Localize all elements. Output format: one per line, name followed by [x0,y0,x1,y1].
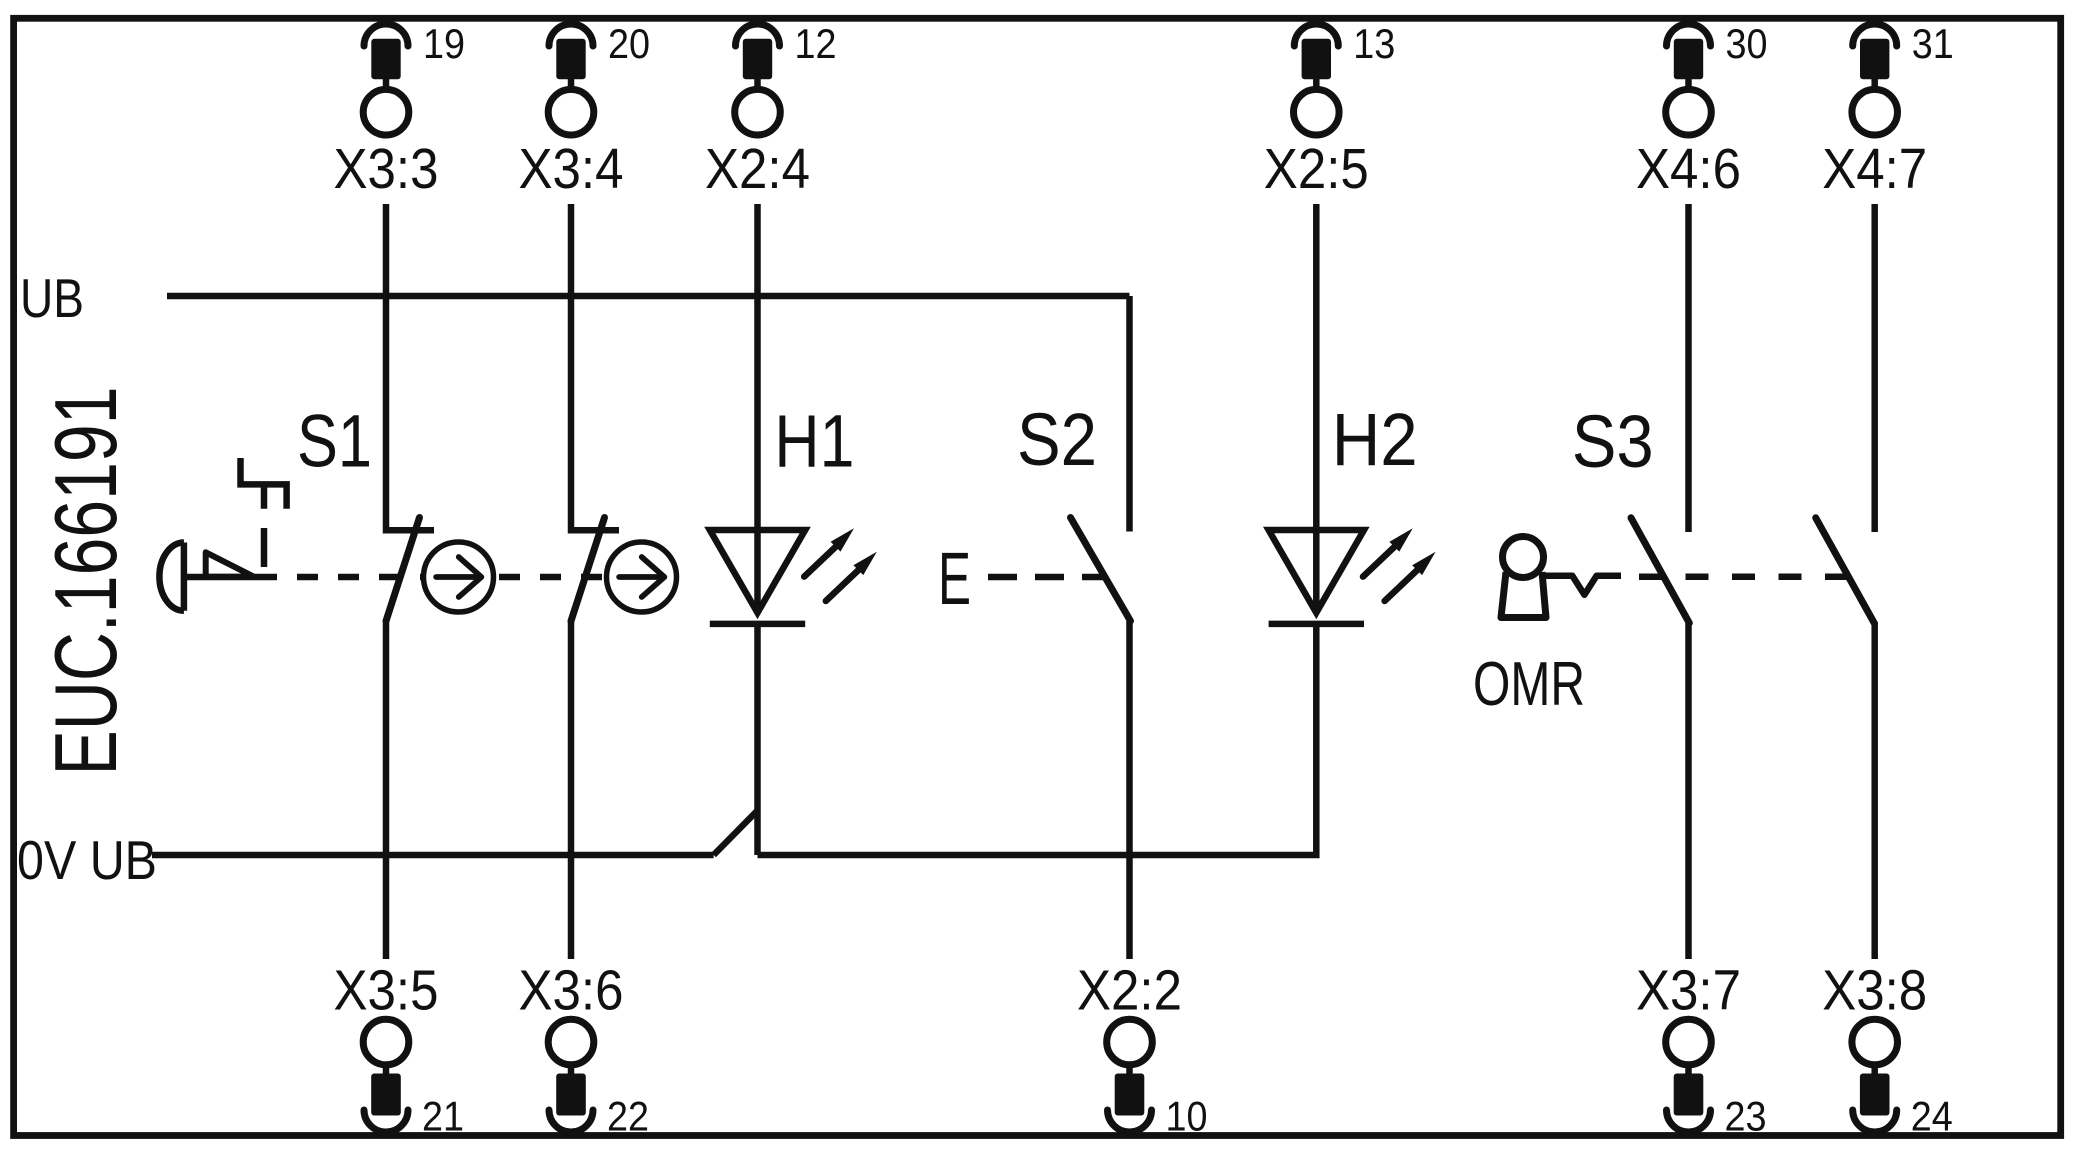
svg-text:30: 30 [1726,20,1768,67]
svg-text:22: 22 [607,1093,649,1140]
wire H1 cathode down to 0V UB [754,624,761,855]
mechanical link dashed S1 segment B [499,574,606,581]
svg-text:E: E [938,537,971,620]
mechanical link dashed S2 [988,574,1104,581]
contact S1.1 blade (NC) [386,518,420,622]
svg-text:X3:5: X3:5 [334,959,439,1023]
wire X3:4 down to contact S1.2 [571,204,619,530]
terminal X3:4 (top plug-socket), pin 20 [519,20,651,201]
svg-text:20: 20 [608,20,650,67]
svg-text:UB: UB [20,267,84,329]
svg-text:X3:7: X3:7 [1636,959,1741,1023]
wire 0V UB diagonal jog [714,811,758,856]
terminal X4:7 (top plug-socket), pin 31 [1822,20,1954,201]
wire contact S3.2 down to X3:8 [1871,622,1878,959]
svg-text:X3:8: X3:8 [1822,959,1927,1023]
svg-text:OMR: OMR [1473,650,1585,719]
wire contact S1.1 down to X3:5 [383,620,390,959]
terminal X2:4 (top plug-socket), pin 12 [705,20,837,201]
svg-text:H1: H1 [774,399,854,482]
svg-text:31: 31 [1912,20,1954,67]
svg-text:S2: S2 [1017,398,1097,481]
contact S1.2 blade (NC) [571,518,605,622]
svg-text:S1: S1 [297,399,372,482]
wire X3:3 down to contact S1.1 [386,204,434,530]
wire X4:6 down to contact S3.1 [1685,204,1692,532]
terminal X3:6 (bottom plug-socket), pin 22 [519,959,650,1140]
terminal X3:8 (bottom plug-socket), pin 24 [1822,959,1953,1140]
svg-text:10: 10 [1166,1093,1208,1140]
mushroom head actuator of S1 [159,543,277,611]
wire UB down to contact S2 [1126,296,1133,532]
svg-text:EUC.166191: EUC.166191 [36,387,135,776]
wire 0V UB rail right segment (H1 to H2) [758,624,1317,855]
svg-text:X3:3: X3:3 [334,137,439,201]
svg-text:X4:6: X4:6 [1636,137,1741,201]
svg-text:0V UB: 0V UB [17,829,157,891]
svg-text:X3:6: X3:6 [519,959,624,1023]
key actuator symbol (OMR key) [1501,537,1546,618]
key actuator stem with kink [1545,576,1621,595]
mechanical link detent to actuator line (dash) [261,528,268,567]
svg-text:12: 12 [795,20,837,67]
wire UB rail [167,293,1130,300]
contact S3.1 blade (NO) [1631,518,1689,623]
lamp H2 (LED symbol) [1269,528,1436,624]
svg-text:21: 21 [422,1093,464,1140]
svg-text:19: 19 [423,20,465,67]
svg-text:S3: S3 [1572,400,1654,483]
terminal X3:5 (bottom plug-socket), pin 21 [334,959,465,1140]
wire contact S1.2 down to X3:6 [568,620,575,959]
terminal X3:7 (bottom plug-socket), pin 23 [1636,959,1767,1140]
terminal X3:3 (top plug-socket), pin 19 [334,20,466,201]
detent (latching) symbol [241,458,287,509]
svg-text:X4:7: X4:7 [1822,137,1927,201]
svg-text:24: 24 [1911,1093,1953,1140]
terminal X2:2 (bottom plug-socket), pin 10 [1077,959,1208,1140]
actuator triangle symbol [206,552,254,576]
wire X2:4 down through lamp H1 [754,204,761,613]
svg-text:X2:2: X2:2 [1077,959,1182,1023]
terminal X4:6 (top plug-socket), pin 30 [1636,20,1768,201]
positive-opening indicator circle 1 [424,542,494,612]
svg-text:X3:4: X3:4 [519,137,624,201]
mechanical link dashed S3 [1639,574,1848,581]
mechanical link dashed S1 segment A [297,574,421,581]
wire contact S3.1 down to X3:7 [1685,622,1692,959]
positive-opening indicator circle 2 [607,542,677,612]
svg-text:X2:5: X2:5 [1264,137,1369,201]
wire 0V UB rail left segment [152,852,714,859]
svg-text:23: 23 [1725,1093,1767,1140]
contact S2 blade (NO) [1071,518,1131,622]
wire X2:5 down through lamp H2 [1313,204,1320,613]
lamp H1 (LED symbol) [710,528,877,624]
wire X4:7 down to contact S3.2 [1871,204,1878,532]
terminal X2:5 (top plug-socket), pin 13 [1264,20,1396,201]
svg-text:X2:4: X2:4 [705,137,810,201]
wire contact S2 down to X2:2 [1126,621,1133,959]
contact S3.2 blade (NO) [1816,518,1875,623]
svg-text:13: 13 [1353,20,1395,67]
svg-text:H2: H2 [1332,398,1418,481]
